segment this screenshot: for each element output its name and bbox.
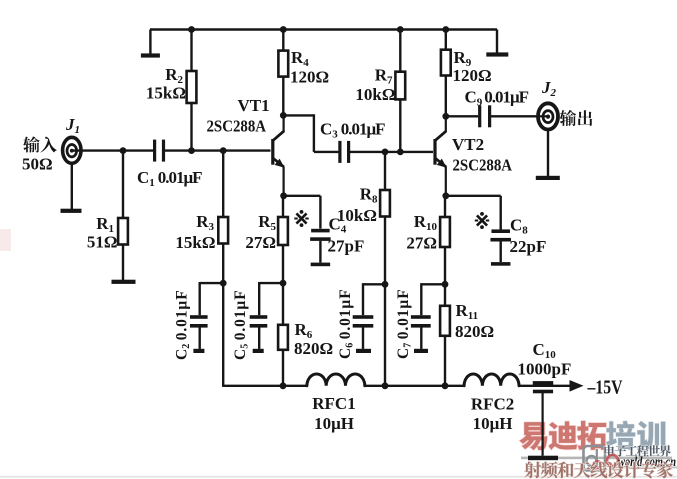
svg-text:27Ω: 27Ω [245, 233, 276, 252]
watermark eeworld url [607, 455, 618, 466]
label shuchu output [560, 110, 576, 126]
node R6 bottom [280, 382, 287, 389]
inductor RFC2 [464, 374, 519, 386]
svg-text:1000pF: 1000pF [518, 360, 572, 379]
wire C1 to VT1 base [165, 149, 271, 151]
ground C8 [491, 262, 511, 266]
capacitor C2 [200, 282, 224, 284]
capacitor C7 [421, 283, 445, 285]
capacitor C9 [478, 105, 481, 127]
svg-text:C10.01μF: C10.01μF [137, 168, 202, 189]
ground top-right [496, 30, 498, 53]
wire C3 to VT2 base [350, 151, 433, 153]
svg-text:10μH: 10μH [314, 414, 354, 433]
resistor R3 [222, 151, 224, 217]
asterisk mark C4 [296, 213, 306, 223]
watermark rf antenna experts [524, 462, 541, 478]
node input-R1 [120, 147, 127, 154]
wire VT1 emitter to C4 [284, 195, 321, 197]
resistor R4 [282, 30, 284, 51]
wire bottom rail right [519, 385, 571, 387]
svg-text:820Ω: 820Ω [294, 339, 333, 358]
transistor VT2 [433, 139, 436, 165]
wire C9 to J2 [491, 115, 548, 117]
svg-text:10kΩ: 10kΩ [355, 85, 395, 104]
svg-text:15kΩ: 15kΩ [146, 84, 186, 103]
svg-text:RFC2: RFC2 [471, 395, 514, 414]
svg-text:C90.01μF: C90.01μF [465, 88, 529, 109]
resistor R10 [444, 196, 446, 217]
svg-text:2SC288A: 2SC288A [453, 156, 513, 175]
svg-text:–15V: –15V [587, 378, 623, 399]
svg-text:120Ω: 120Ω [453, 66, 492, 85]
svg-text:820Ω: 820Ω [455, 322, 494, 341]
svg-text:22pF: 22pF [510, 237, 547, 256]
svg-text:27pF: 27pF [328, 237, 365, 256]
node VT2 emitter [442, 192, 449, 199]
svg-text:50Ω: 50Ω [22, 155, 53, 174]
node R11 bottom [442, 382, 449, 389]
ground J1 [61, 209, 82, 213]
label shuru input [23, 136, 39, 152]
svg-text:C30.01μF: C30.01μF [320, 120, 385, 141]
node rail-R4 [280, 26, 287, 33]
svg-text:120Ω: 120Ω [290, 68, 329, 87]
node input-R3 [220, 147, 227, 154]
node rail-R2 [188, 26, 195, 33]
svg-text:VT2: VT2 [452, 135, 484, 154]
scan artifact bottom edge [0, 476, 677, 478]
resistor R8 [384, 152, 386, 190]
ground top-left [149, 30, 151, 54]
node rail-R7 [397, 26, 404, 33]
node R8-C6 [382, 281, 389, 288]
resistor R6 [282, 283, 284, 325]
node VT1 collector [280, 112, 287, 119]
svg-text:C70.01μF: C70.01μF [395, 289, 414, 359]
wire bottom rail middle [365, 385, 465, 387]
wire J1 to C1 [72, 149, 153, 151]
watermark pink fragment left edge [0, 229, 11, 251]
svg-text:51Ω: 51Ω [87, 233, 118, 252]
ground C2 [193, 349, 204, 353]
wire bottom rail left [222, 385, 307, 387]
supply arrow [570, 380, 584, 392]
svg-text:2SC288A: 2SC288A [207, 117, 267, 136]
node input-R2 [188, 147, 195, 154]
wire into J2 center [537, 115, 548, 117]
svg-text:10kΩ: 10kΩ [337, 206, 377, 225]
capacitor C4 [311, 229, 330, 233]
connector J1 [63, 137, 81, 163]
watermark eeworld logo box [584, 446, 606, 471]
ground C5 [253, 349, 264, 353]
capacitor C1 [153, 140, 156, 162]
node VT1 emitter [280, 192, 287, 199]
capacitor C5 [259, 282, 283, 284]
svg-text:RFC1: RFC1 [312, 394, 355, 413]
inductor RFC1 [307, 374, 365, 386]
watermark eeworld chinese [604, 445, 615, 456]
node R5-C5 [280, 280, 287, 287]
ground C7 [414, 349, 428, 353]
wire VT1 collector to C3 [283, 114, 314, 116]
ground R1 [112, 280, 136, 284]
resistor R5 [282, 196, 284, 217]
capacitor C3 [338, 141, 341, 163]
wire top supply rail [150, 28, 497, 30]
capacitor C8 [491, 229, 510, 233]
node R10-C7 [442, 281, 449, 288]
node rail-R9 [442, 26, 449, 33]
resistor R11 [444, 284, 446, 306]
svg-text:VT1: VT1 [238, 96, 270, 115]
watermark gray underline [521, 457, 672, 460]
resistor R7 [399, 30, 401, 72]
node R3-C2 [220, 280, 227, 287]
wire C10 to ground [541, 393, 543, 456]
node VT2 collector [442, 113, 449, 120]
node C3-R7 [397, 149, 404, 156]
ground C4 [311, 263, 331, 267]
ground C6 [356, 349, 371, 353]
wire J1 to ground [71, 163, 73, 209]
wire J2 to ground [547, 129, 549, 176]
svg-text:C50.01μF: C50.01μF [232, 290, 251, 360]
wire VT2 emitter to C8 [446, 195, 501, 197]
capacitor C6 [363, 283, 385, 285]
transistor VT1 [271, 139, 274, 165]
capacitor C10 [533, 381, 554, 385]
svg-text:15kΩ: 15kΩ [175, 233, 215, 252]
node C3-R8 [382, 149, 389, 156]
svg-text:27Ω: 27Ω [406, 234, 437, 253]
wire VT2 collector to C9 [446, 115, 478, 117]
svg-text:10μH: 10μH [473, 414, 513, 433]
resistor R2 [190, 30, 192, 72]
svg-text:C20.01μF: C20.01μF [174, 290, 193, 360]
asterisk mark C8 [477, 215, 487, 225]
resistor R1 [122, 151, 124, 218]
node R8 bottom [382, 382, 389, 389]
svg-text:C60.01μF: C60.01μF [337, 289, 356, 359]
connector J2 [538, 103, 558, 129]
resistor R9 [445, 30, 447, 50]
ground J2 [536, 176, 560, 180]
watermark red yiditu training [519, 422, 547, 450]
ground C10 [528, 456, 558, 461]
